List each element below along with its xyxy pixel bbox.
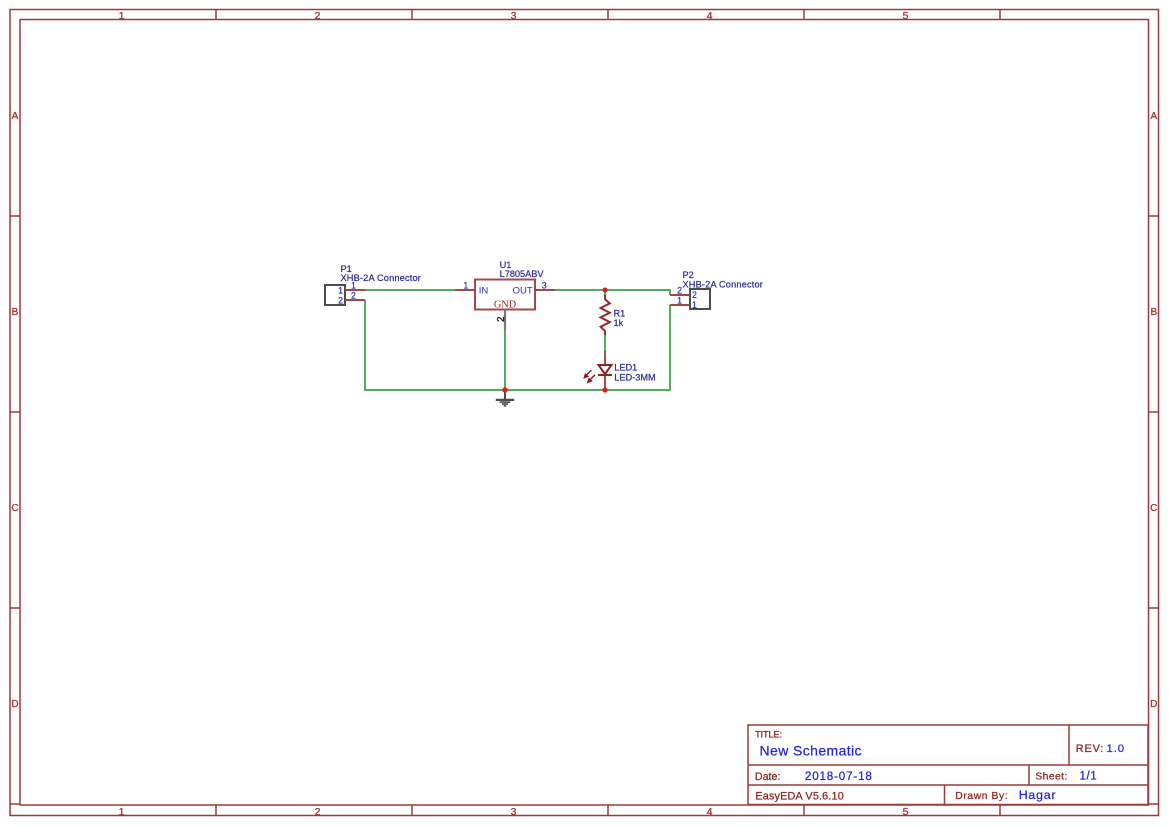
svg-text:TITLE:: TITLE:: [755, 730, 782, 741]
svg-text:1/1: 1/1: [1080, 771, 1098, 783]
svg-text:B: B: [12, 307, 19, 318]
svg-text:1: 1: [351, 281, 356, 291]
svg-text:5: 5: [903, 10, 909, 22]
svg-text:2: 2: [315, 10, 321, 22]
svg-text:New Schematic: New Schematic: [760, 743, 862, 759]
svg-text:1: 1: [463, 281, 468, 291]
svg-text:3: 3: [511, 806, 517, 818]
svg-text:Date:: Date:: [755, 771, 781, 783]
svg-text:2: 2: [677, 286, 682, 296]
svg-text:A: A: [1150, 111, 1157, 122]
svg-text:1: 1: [119, 10, 125, 22]
svg-text:2: 2: [315, 806, 321, 818]
svg-text:2: 2: [496, 316, 507, 322]
svg-text:REV:: REV:: [1076, 743, 1105, 755]
svg-text:Drawn By:: Drawn By:: [955, 791, 1008, 802]
svg-text:2: 2: [692, 290, 697, 300]
svg-text:3: 3: [511, 10, 517, 22]
svg-text:4: 4: [707, 806, 713, 818]
svg-text:P2: P2: [683, 270, 694, 280]
svg-text:1.0: 1.0: [1107, 743, 1126, 755]
svg-text:1: 1: [338, 286, 343, 296]
svg-text:D: D: [1150, 699, 1157, 710]
svg-text:2: 2: [338, 296, 343, 306]
svg-text:LED1: LED1: [614, 363, 637, 373]
svg-text:C: C: [1150, 503, 1157, 514]
svg-text:OUT: OUT: [513, 286, 533, 297]
svg-text:2018-07-18: 2018-07-18: [805, 770, 873, 783]
svg-text:C: C: [11, 503, 18, 514]
svg-text:B: B: [1150, 307, 1157, 318]
svg-text:1: 1: [677, 296, 682, 306]
svg-text:3: 3: [542, 281, 547, 291]
svg-text:Sheet:: Sheet:: [1035, 772, 1067, 783]
svg-text:LED-3MM: LED-3MM: [614, 372, 655, 382]
svg-text:1: 1: [119, 806, 125, 818]
svg-text:L7805ABV: L7805ABV: [500, 269, 545, 279]
svg-text:GND: GND: [494, 300, 517, 311]
svg-text:IN: IN: [479, 286, 489, 297]
svg-text:5: 5: [903, 806, 909, 818]
svg-text:EasyEDA V5.6.10: EasyEDA V5.6.10: [755, 791, 844, 803]
svg-text:R1: R1: [614, 309, 626, 319]
svg-text:2: 2: [351, 291, 356, 301]
svg-text:XHB-2A Connector: XHB-2A Connector: [683, 279, 764, 289]
svg-text:D: D: [11, 699, 18, 710]
svg-text:A: A: [12, 111, 19, 122]
svg-text:4: 4: [707, 10, 713, 22]
svg-text:Hagar: Hagar: [1019, 788, 1057, 802]
svg-text:1k: 1k: [614, 318, 624, 328]
svg-text:1: 1: [692, 300, 697, 310]
